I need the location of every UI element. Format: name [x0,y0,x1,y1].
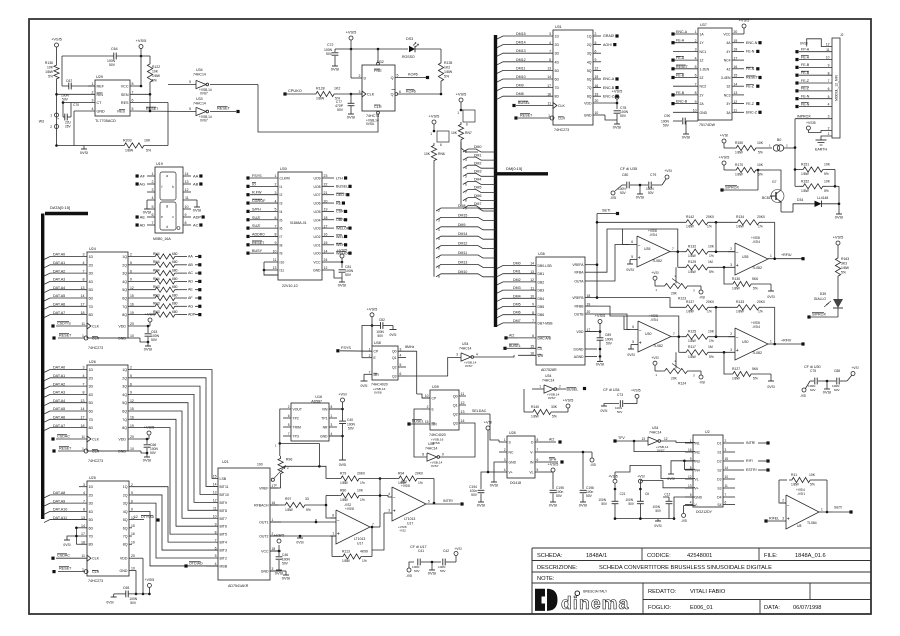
svg-text:4Y: 4Y [726,50,731,54]
svg-text:VDD: VDD [120,557,128,561]
svg-text:7Q: 7Q [122,305,127,309]
svg-text:dinema: dinema [561,593,629,613]
svg-text:24: 24 [324,258,328,262]
svg-text:74HC273: 74HC273 [88,346,103,350]
svg-text:14: 14 [213,483,217,487]
svg-text:I9: I9 [280,252,283,256]
svg-text:FE-B: FE-B [676,74,685,78]
MODUL signal pins [795,48,832,109]
svg-text:D34: D34 [797,198,803,202]
svg-text:DB2: DB2 [538,280,545,284]
svg-text:Q0: Q0 [453,395,458,399]
svg-text:+VS!5: +VS!5 [608,474,617,478]
svg-text:VCC: VCC [313,261,321,265]
svg-text:TL082: TL082 [653,344,663,348]
LED DS3 ROSSO [402,37,441,60]
svg-text:4K99: 4K99 [360,550,368,554]
svg-text:74HC4020: 74HC4020 [371,383,388,387]
svg-text:+: + [57,117,59,121]
resistor network RN7 [451,92,475,143]
svg-text:AGND: AGND [574,355,584,359]
svg-text:RIN: RIN [97,93,104,97]
svg-text:−: − [638,243,641,249]
svg-text:4D: 4D [89,510,94,514]
svg-text:AC: AC [193,222,199,227]
svg-text:WEH: WEH [336,243,345,247]
svg-text:1/8W: 1/8W [791,483,800,487]
svg-text:IN: IN [530,461,534,465]
svg-text:e: e [161,215,163,219]
svg-text:CF di U34: CF di U34 [603,388,620,392]
svg-text:8D: 8D [89,543,94,547]
svg-text:FOGLIO:: FOGLIO: [648,605,671,611]
capacitor C82 [372,318,397,338]
svg-text:DM14: DM14 [458,232,467,236]
power +VS!5 u2 [608,472,617,490]
svg-text:−: − [787,503,790,509]
U26 clock pins [51,435,99,454]
op-amp U35 TL082 b [728,236,802,275]
svg-text:NC4: NC4 [724,59,731,63]
svg-text:0VSI: 0VSI [143,209,151,214]
svg-text:6: 6 [130,269,132,273]
svg-text:3: 3 [504,458,506,462]
svg-text:16: 16 [130,303,134,307]
svg-text:10: 10 [826,56,830,60]
svg-text:DAT.A7: DAT.A7 [53,424,65,428]
net SPH dg418 [547,458,564,464]
svg-text:7: 7 [83,499,85,503]
svg-text:RFBA: RFBA [574,271,584,275]
wire u2 gnd [673,497,695,520]
svg-text:AE: AE [188,288,193,292]
svg-text:R97: R97 [285,497,291,501]
svg-text:14: 14 [461,419,465,423]
svg-text:VL: VL [529,471,533,475]
svg-text:18: 18 [81,311,85,315]
svg-text:ROSSO: ROSSO [402,55,415,59]
net KO#6 [408,73,429,80]
svg-text:1/8W: 1/8W [841,266,850,270]
net SELDAC [466,409,499,440]
svg-text:+RFIU: +RFIU [781,253,792,257]
capacitor C77 [335,94,354,112]
wire u17b plus [372,513,384,550]
svg-text:-VS!: -VS! [800,394,806,398]
svg-text:22: 22 [324,183,328,187]
svg-text:19: 19 [734,39,738,43]
svg-text:BUSY: BUSY [252,249,263,253]
svg-text:C70: C70 [73,103,79,107]
svg-text:R151: R151 [801,163,809,167]
svg-text:3: 3 [272,567,274,571]
svg-text:KO#6: KO#6 [406,90,416,94]
svg-text:RN3: RN3 [153,293,160,297]
svg-text:1/8W: 1/8W [285,508,294,512]
svg-text:TL084: TL084 [807,521,817,525]
svg-text:8: 8 [83,278,85,282]
svg-text:13: 13 [734,91,738,95]
svg-text:4: 4 [92,107,94,111]
svg-text:12: 12 [185,188,189,192]
svg-text:06/07/1998: 06/07/1998 [793,605,821,611]
svg-text:3: 3 [400,347,402,351]
svg-text:FE-Z: FE-Z [746,102,755,106]
svg-text:VCC: VCC [261,550,269,554]
svg-text:1/8W: 1/8W [686,225,695,229]
svg-text:DAT.A11: DAT.A11 [53,516,67,520]
svg-text:DB5: DB5 [538,305,545,309]
svg-text:0VS7: 0VS7 [200,92,208,96]
net OTD!AD [184,562,218,568]
svg-text:6: 6 [631,240,633,244]
svg-text:4: 4 [400,354,402,358]
svg-text:74HC4020: 74HC4020 [429,433,446,437]
svg-text:7Q: 7Q [587,86,592,90]
svg-text:3: 3 [152,188,154,192]
svg-text:1K2: 1K2 [444,66,450,70]
svg-text:20K0: 20K0 [757,215,765,219]
svg-text:U30: U30 [742,340,748,344]
svg-text:+VS!5: +VS!5 [833,235,844,240]
svg-text:3: 3 [83,253,85,257]
svg-text:11: 11 [81,554,85,558]
svg-text:5: 5 [215,554,217,558]
svg-text:50V: 50V [620,114,627,118]
svg-text:50V: 50V [628,502,635,506]
svg-text:2: 2 [288,405,290,409]
svg-text:6: 6 [152,213,154,217]
svg-text:50V: 50V [282,562,289,566]
svg-text:8D: 8D [89,426,94,430]
svg-text:R140: R140 [531,405,539,409]
svg-text:RESET: RESET [676,65,689,69]
svg-text:U30: U30 [280,167,287,171]
svg-text:10K: 10K [809,473,816,477]
resistor R142 [640,215,734,229]
svg-text:12: 12 [530,278,534,282]
svg-text:8: 8 [828,71,830,75]
ground c196 [579,500,587,507]
svg-text:15: 15 [734,74,738,78]
svg-text:R96: R96 [286,457,292,461]
svg-text:DM8: DM8 [516,92,524,96]
U31 clock pins [512,101,565,121]
svg-text:I11: I11 [280,269,285,273]
svg-text:0VSI: 0VSI [80,151,88,155]
svg-text:3: 3 [275,191,277,195]
wire vref r96 [270,487,281,489]
svg-text:3: 3 [331,423,333,427]
power terminal +VS!5 [612,89,623,105]
svg-text:DESCRIZIONE:: DESCRIZIONE: [537,565,578,571]
svg-text:DM6: DM6 [513,311,521,315]
svg-text:RES: RES [121,101,129,105]
svg-text:3-4EN: 3-4EN [721,76,731,80]
svg-text:8: 8 [695,91,697,95]
svg-text:+VS!: +VS! [338,392,347,397]
svg-text:TL082: TL082 [752,266,762,270]
svg-text:CT: CT [97,101,103,105]
svg-text:1: 1 [690,439,692,443]
svg-text:10: 10 [130,334,134,338]
wire u2 in3 [667,460,695,482]
svg-text:7: 7 [532,319,534,323]
svg-text:1: 1 [152,172,154,176]
svg-text:+VS!5: +VS!5 [563,398,574,403]
svg-text:20: 20 [595,99,599,103]
svg-text:SIPROX: SIPROX [725,186,739,190]
svg-text:1: 1 [770,340,772,344]
svg-text:10: 10 [693,109,697,113]
svg-text:CLK: CLK [367,93,375,97]
svg-text:WEL: WEL [336,235,344,239]
svg-text:AE: AE [140,214,146,219]
net BUSEL u39 [407,420,423,426]
svg-text:2D: 2D [89,493,94,497]
inverter U34 gate1 (busel) [532,374,586,400]
ground 0VSI [143,453,151,462]
svg-text:50V: 50V [601,502,608,506]
svg-text:5: 5 [130,261,132,265]
bus taps DATA.A0-A7 to U24 [44,253,87,318]
svg-text:REDATTO:: REDATTO: [648,589,677,595]
svg-text:R163: R163 [841,257,849,261]
svg-text:IN2: IN2 [695,451,700,455]
capacitor C21 [598,489,625,519]
svg-text:+: + [736,263,739,269]
svg-text:WELOF: WELOF [336,226,350,230]
svg-text:1%: 1% [709,339,714,343]
svg-text:3Q: 3Q [122,272,127,276]
capacitor C64 [62,47,142,67]
trimmer R96 [271,442,321,488]
wire inverter out [258,85,378,133]
svg-text:INPROX: INPROX [797,114,811,118]
ground cf30 [823,386,831,394]
svg-text:5%: 5% [824,189,829,193]
svg-text:VDD: VDD [118,438,126,442]
svg-text:680: 680 [172,293,178,297]
MODUL earth pin [815,132,832,152]
capacitor C90 [661,112,698,130]
svg-text:FE-Z: FE-Z [746,84,755,88]
svg-text:DM8: DM8 [458,204,465,208]
svg-text:RN4: RN4 [153,252,160,256]
svg-text:CGROF: CGROF [252,199,266,203]
svg-text:7Q: 7Q [123,535,128,539]
svg-text:19: 19 [130,311,134,315]
svg-text:D1: D1 [717,442,721,446]
svg-text:+: + [638,256,641,262]
svg-text:11: 11 [734,109,738,113]
svg-text:U38: U38 [374,341,381,345]
capacitor C72 [324,43,351,62]
svg-text:10: 10 [185,205,189,209]
resistor network RN6 [424,114,449,164]
svg-text:+VS!5: +VS!5 [631,389,641,393]
svg-text:+VS!: +VS! [651,271,659,275]
svg-text:1Q: 1Q [122,255,127,259]
svg-text:10K: 10K [757,163,764,167]
svg-text:BIT9: BIT9 [220,501,227,505]
svg-text:6D: 6D [89,410,94,414]
svg-text:8: 8 [215,530,217,534]
svg-text:9: 9 [275,241,277,245]
svg-text:50V: 50V [150,451,157,455]
svg-text:I10: I10 [280,261,285,265]
svg-text:9: 9 [438,275,440,279]
svg-text:OTD!AD: OTD!AD [189,562,203,566]
svg-text:0VSI: 0VSI [682,134,690,139]
svg-text:DM5: DM5 [513,303,521,307]
svg-text:3D: 3D [89,272,94,276]
svg-text:CSDAC: CSDAC [57,435,70,439]
capacitor C78 [605,103,629,120]
svg-text:8MHz: 8MHz [405,345,414,349]
svg-text:V-: V- [530,451,533,455]
svg-text:1/8W: 1/8W [688,339,697,343]
svg-text:7: 7 [215,538,217,542]
svg-text:7: 7 [828,79,830,83]
svg-text:DB4: DB4 [538,297,545,301]
svg-text:12: 12 [826,43,830,47]
net KO#6 inverted [406,90,416,94]
svg-text:VL: VL [695,478,699,482]
svg-text:A!2: A!2 [509,333,514,337]
svg-text:6: 6 [400,372,402,376]
svg-text:15: 15 [425,420,429,424]
svg-text:0VSI: 0VSI [601,409,608,413]
svg-text:D3: D3 [717,478,721,482]
svg-text:ADP: ADP [193,214,201,219]
svg-text:CLK#0: CLK#0 [280,177,290,181]
svg-text:2: 2 [730,247,732,251]
svg-text:5%: 5% [48,75,53,79]
svg-text:20K0: 20K0 [415,472,423,476]
svg-text:1: 1 [369,347,371,351]
svg-text:680: 680 [172,285,178,289]
svg-text:AD: AD [140,222,146,227]
svg-text:19: 19 [595,92,599,96]
svg-text:I6: I6 [280,227,283,231]
resistor R11 [779,473,828,513]
svg-text:R127: R127 [732,367,740,371]
svg-text:1/8W: 1/8W [152,74,161,78]
svg-text:TFV: TFV [618,436,625,440]
connector W3 [39,113,59,129]
svg-text:2: 2 [695,39,697,43]
svg-text:R79: R79 [340,472,346,476]
svg-text:TRIM: TRIM [293,426,301,430]
svg-text:14: 14 [547,75,551,79]
svg-text:13: 13 [547,67,551,71]
svg-text:M0B0_16A: M0B0_16A [153,237,171,241]
svg-text:S2: S2 [717,469,721,473]
svg-text:8: 8 [332,514,334,518]
svg-text:4: 4 [388,492,390,496]
power +VS!5 dg418 VL [547,462,558,473]
ground u17a plus [296,535,303,545]
title block grid [532,548,871,614]
svg-text:0VSI: 0VSI [596,362,604,367]
svg-text:DB7-MSB: DB7-MSB [538,321,554,325]
svg-text:BUSEL: BUSEL [567,388,579,392]
svg-text:S4: S4 [717,503,721,507]
svg-text:15: 15 [324,241,328,245]
wire fan latch to DAC [131,370,218,566]
svg-text:0VSI: 0VSI [490,482,498,487]
svg-text:20K0: 20K0 [357,472,365,476]
svg-text:6: 6 [632,325,634,329]
svg-text:DM1: DM1 [474,153,481,157]
resistor R203 [57,103,169,153]
svg-text:15: 15 [131,524,135,528]
svg-text:0VSI: 0VSI [477,502,485,507]
svg-text:17: 17 [547,84,551,88]
svg-text:8: 8 [422,453,424,457]
svg-text:DM[0:15]: DM[0:15] [506,166,522,171]
svg-text:b: b [172,185,174,189]
svg-text:DAT.A1: DAT.A1 [53,261,65,265]
net RESET out [217,106,240,114]
svg-text:DM7: DM7 [474,202,481,206]
svg-text:8Q: 8Q [123,543,128,547]
svg-text:-VS!4: -VS!4 [752,325,760,329]
svg-text:5: 5 [288,423,290,427]
svg-text:5%: 5% [753,287,758,291]
power terminal +VS!5 u25 [145,578,155,595]
ferrite B0 [769,138,796,151]
svg-text:13: 13 [273,266,277,270]
svg-text:50V: 50V [655,509,662,513]
svg-text:10: 10 [530,295,534,299]
svg-text:5D: 5D [89,401,94,405]
svg-text:50V: 50V [663,124,670,128]
svg-text:DM4: DM4 [513,294,521,298]
svg-text:20: 20 [130,435,134,439]
svg-text:+VS!: +VS! [637,474,645,478]
svg-text:DM4: DM4 [474,178,481,182]
svg-text:CLK: CLK [558,104,565,108]
svg-text:-VS!4: -VS!4 [649,233,657,237]
svg-text:5: 5 [132,107,134,111]
svg-text:74HC14: 74HC14 [459,347,472,351]
svg-text:50V: 50V [326,52,333,56]
svg-text:8: 8 [465,199,467,203]
svg-text:1/8W: 1/8W [732,287,741,291]
svg-text:DS3: DS3 [406,37,413,41]
svg-text:D: D [364,77,367,81]
wire u2 vplus [640,481,695,488]
svg-text:2Q: 2Q [122,263,127,267]
svg-text:8: 8 [438,265,440,269]
svg-text:DB6: DB6 [538,313,545,317]
svg-text:DAT.A2: DAT.A2 [53,269,65,273]
svg-text:1: 1 [821,508,823,512]
svg-text:I7: I7 [280,235,283,239]
svg-text:SET!: SET! [834,506,842,510]
svg-text:U25: U25 [89,476,96,480]
ground 0VSI u21 [270,571,290,580]
svg-text:18: 18 [547,92,551,96]
svg-text:26V: 26V [65,125,72,129]
svg-text:20K: 20K [671,377,678,381]
svg-text:GND: GND [118,337,126,341]
ground 0VSI [835,212,843,219]
ground 0VSI u30a [627,345,634,358]
svg-text:C41: C41 [418,549,424,553]
